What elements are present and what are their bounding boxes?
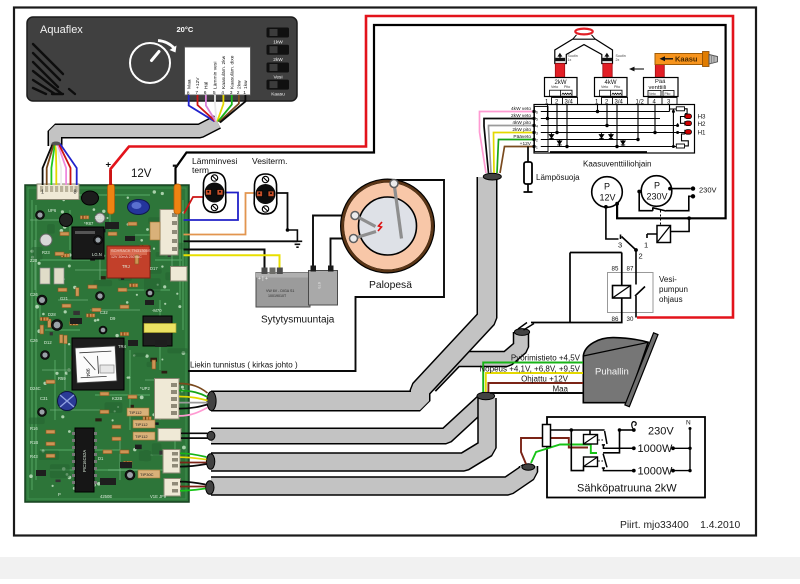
svg-text:Vesi-: Vesi-: [659, 275, 677, 284]
svg-text:UP6: UP6: [48, 208, 57, 213]
svg-text:2x: 2x: [616, 58, 620, 62]
svg-text:N: N: [686, 420, 691, 427]
svg-text:Vesi: Vesi: [273, 74, 282, 80]
svg-text:term.: term.: [192, 165, 211, 175]
svg-text:D12: D12: [44, 340, 52, 345]
svg-text:G21: G21: [60, 296, 69, 301]
svg-text:Kaasuventtiiliohjain: Kaasuventtiiliohjain: [583, 160, 652, 169]
svg-text:Pääveto: Pääveto: [513, 134, 531, 140]
svg-text:D28: D28: [48, 312, 56, 317]
svg-text:1kW: 1kW: [273, 40, 283, 46]
svg-text:C26: C26: [30, 338, 38, 343]
svg-text:D17: D17: [150, 266, 158, 271]
svg-text:R23: R23: [42, 250, 50, 255]
svg-text:12V: 12V: [600, 193, 616, 203]
svg-text:2kW pito: 2kW pito: [512, 127, 531, 133]
svg-text:SCHRACK TN31300S: SCHRACK TN31300S: [111, 248, 151, 253]
svg-text:P: P: [58, 492, 61, 497]
svg-text:-M70: -M70: [152, 308, 162, 313]
svg-text:TR4: TR4: [118, 344, 127, 349]
svg-text:Z20: Z20: [30, 258, 38, 263]
svg-text:230V: 230V: [648, 426, 674, 438]
svg-text:+12V: +12V: [195, 77, 201, 89]
svg-text:2kW: 2kW: [273, 57, 283, 63]
svg-text:Häl: Häl: [204, 82, 210, 89]
svg-text:1x: 1x: [568, 58, 572, 62]
svg-text:H1: H1: [698, 129, 706, 136]
svg-text:LG.N: LG.N: [92, 252, 102, 257]
svg-text:12V 30mA 250VAC: 12V 30mA 250VAC: [111, 255, 142, 259]
svg-text:P: P: [604, 182, 610, 192]
svg-text:TIP112: TIP112: [129, 410, 142, 415]
svg-text:10019010T: 10019010T: [268, 294, 287, 298]
svg-text:venttiili: venttiili: [649, 85, 667, 91]
svg-text:P: P: [654, 181, 660, 191]
svg-text:D22: D22: [95, 215, 103, 220]
svg-text:Pito: Pito: [665, 92, 671, 96]
svg-text:ohjaus: ohjaus: [659, 295, 683, 304]
svg-text:Pito: Pito: [564, 85, 570, 89]
svg-text:4250E: 4250E: [100, 494, 112, 499]
svg-text:pumpun: pumpun: [659, 285, 688, 294]
svg-text:Puhallin: Puhallin: [595, 367, 629, 378]
svg-text:TIP112: TIP112: [135, 434, 148, 439]
svg-text:Veto: Veto: [551, 85, 558, 89]
svg-text:Pyörimistieto +4,5V: Pyörimistieto +4,5V: [511, 354, 581, 363]
svg-text:Ohjattu +12V: Ohjattu +12V: [521, 375, 569, 384]
svg-text:TIP112: TIP112: [135, 422, 148, 427]
svg-text:Veto: Veto: [601, 85, 608, 89]
svg-text:R59: R59: [58, 376, 66, 381]
svg-text:Kaasuläm. 2kw: Kaasuläm. 2kw: [221, 55, 227, 89]
svg-text:Kaasu: Kaasu: [271, 92, 285, 98]
svg-text:85: 85: [612, 266, 619, 273]
svg-text:1kw: 1kw: [243, 80, 249, 89]
svg-text:1000W: 1000W: [638, 466, 673, 478]
svg-text:Aquaflex: Aquaflex: [40, 24, 83, 36]
svg-text:Lämmin vesi: Lämmin vesi: [213, 62, 219, 89]
svg-text:C26: C26: [30, 292, 38, 297]
svg-text:1: 1: [644, 241, 648, 250]
svg-text:Piirt. mjo33400 1.4.2010: Piirt. mjo33400 1.4.2010: [620, 520, 740, 531]
svg-text:H2: H2: [698, 121, 706, 128]
svg-text:Veto: Veto: [649, 92, 656, 96]
svg-text:Maa: Maa: [186, 79, 192, 89]
svg-text:30: 30: [627, 316, 634, 323]
svg-text:+12V: +12V: [520, 141, 532, 147]
svg-text:Liekin tunnistus ( kirkas joht: Liekin tunnistus ( kirkas johto ): [190, 361, 298, 370]
svg-text:230V: 230V: [647, 192, 668, 202]
svg-text:Nopeus +4,1V, +6,8V, +9,5V: Nopeus +4,1V, +6,8V, +9,5V: [479, 365, 580, 374]
svg-text:Kaasuläm. dixe: Kaasuläm. dixe: [230, 55, 236, 89]
svg-text:*R87: *R87: [84, 221, 94, 226]
svg-text:4kW pito: 4kW pito: [512, 120, 531, 126]
svg-text:C31: C31: [40, 396, 48, 401]
svg-text:2kW veto: 2kW veto: [511, 113, 531, 119]
svg-text:D24C: D24C: [30, 386, 41, 391]
svg-text:230V: 230V: [699, 186, 717, 195]
svg-text:4kW veto: 4kW veto: [511, 106, 531, 112]
svg-text:VW 6V - DIGA S1: VW 6V - DIGA S1: [266, 289, 294, 293]
svg-text:H3: H3: [698, 114, 706, 121]
svg-text:Vesiterm.: Vesiterm.: [252, 156, 287, 166]
svg-text:Pito: Pito: [614, 85, 620, 89]
svg-text:984: 984: [84, 368, 90, 377]
svg-text:D1: D1: [98, 456, 104, 461]
svg-text:Sähköpatruuna 2kW: Sähköpatruuna 2kW: [577, 483, 677, 495]
svg-text:*UP2: *UP2: [140, 386, 150, 391]
svg-text:679: 679: [317, 282, 322, 289]
svg-text:R1B: R1B: [30, 440, 38, 445]
svg-text:PIC16C62A: PIC16C62A: [82, 450, 87, 472]
svg-text:8: 8: [74, 190, 77, 196]
svg-text:87: 87: [627, 266, 634, 273]
svg-text:20°C: 20°C: [177, 25, 194, 34]
svg-text:2kw: 2kw: [237, 80, 243, 89]
svg-text:C32: C32: [100, 310, 108, 315]
svg-text:D9: D9: [110, 316, 116, 321]
svg-text:+: +: [106, 160, 112, 171]
svg-text:V1E JF9: V1E JF9: [150, 494, 167, 499]
svg-text:Lämpösuoja: Lämpösuoja: [536, 173, 580, 182]
svg-text:R16: R16: [30, 426, 38, 431]
svg-text:TIP30C: TIP30C: [140, 472, 154, 477]
svg-text:TRJ: TRJ: [122, 264, 130, 269]
svg-text:K32B: K32B: [112, 396, 122, 401]
svg-text:1000W: 1000W: [638, 443, 673, 455]
svg-text:2: 2: [639, 252, 643, 261]
svg-text:3: 3: [618, 241, 622, 250]
svg-text:+ | +: + | +: [258, 276, 268, 282]
svg-text:Palopesä: Palopesä: [369, 280, 412, 291]
svg-text:R43: R43: [30, 454, 38, 459]
svg-text:Kaasu: Kaasu: [675, 55, 698, 64]
svg-text:Sytytysmuuntaja: Sytytysmuuntaja: [261, 315, 335, 326]
svg-text:12V: 12V: [131, 168, 152, 180]
svg-text:1: 1: [41, 190, 44, 196]
svg-text:Maa: Maa: [552, 385, 568, 394]
